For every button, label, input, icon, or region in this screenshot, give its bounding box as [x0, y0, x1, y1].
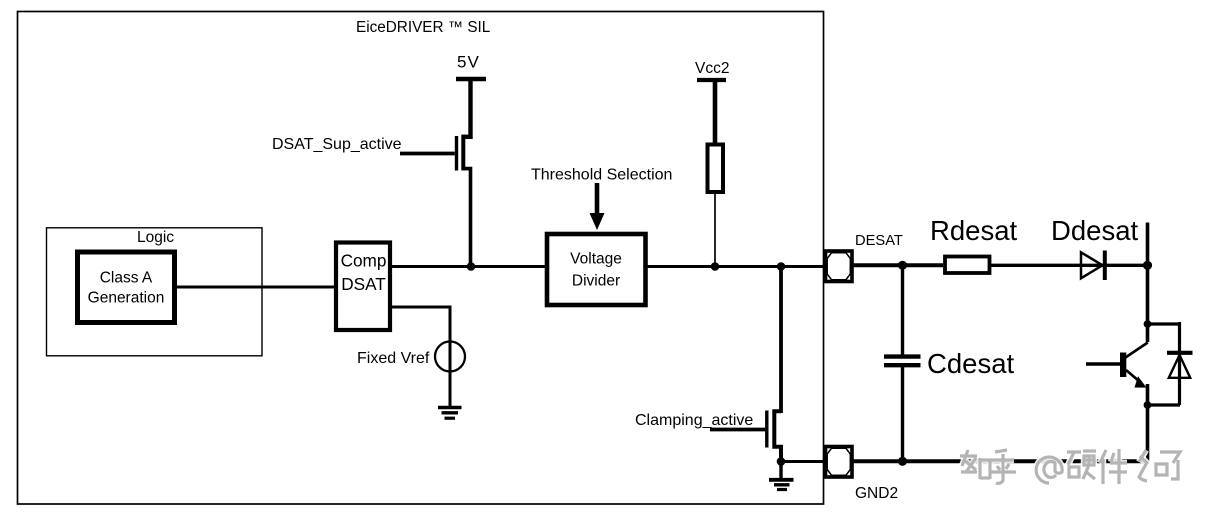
gate wire Clamping — [710, 428, 765, 432]
svg-text:Divider: Divider — [572, 273, 620, 290]
wire Class A to Comp DSAT — [177, 286, 334, 289]
supply bar Vcc2 — [697, 78, 726, 82]
junction node Cdesat top — [898, 261, 907, 270]
wire Comp DSAT ref output — [392, 307, 450, 406]
svg-text:Cdesat: Cdesat — [927, 348, 1014, 379]
wire clamp source to GND2 pad — [781, 460, 825, 463]
transistor Q IGBT — [1120, 343, 1148, 462]
junction node Vcc2 divider — [711, 262, 720, 271]
wire clamp drain vertical — [779, 267, 783, 414]
transistor DSAT_Sup (pmos) — [457, 135, 471, 267]
svg-text:EiceDRIVER ™ SIL: EiceDRIVER ™ SIL — [356, 19, 490, 36]
gate wire IGBT — [1086, 362, 1120, 365]
junction node diode bottom — [1144, 401, 1152, 409]
pad GND2 — [826, 447, 853, 478]
junction node diode top — [1144, 320, 1152, 328]
ground clamp — [769, 462, 794, 490]
junction node Ddesat cathode — [1143, 261, 1152, 270]
wire collector down — [1146, 265, 1150, 342]
wire Rdesat to IGBT collector node — [990, 264, 1148, 267]
svg-text:Comp: Comp — [341, 251, 387, 271]
svg-text:Ddesat: Ddesat — [1051, 215, 1138, 246]
capacitor Cdesat — [884, 357, 921, 366]
comparator block Comp DSAT — [336, 243, 390, 331]
outer box EiceDRIVER SIL — [18, 12, 824, 505]
wire Vcc2 to resistor — [713, 80, 718, 144]
wire to freewheel diode bottom — [1148, 403, 1181, 406]
voltage source Fixed Vref — [435, 342, 465, 372]
wire resistor to node — [714, 193, 716, 267]
Voltage Divider block — [547, 234, 646, 305]
wire 5V to transistor drain — [463, 79, 470, 137]
junction node DSAT_Sup source / comparator output — [467, 262, 476, 271]
ground Fixed Vref — [438, 408, 462, 419]
wire Comp DSAT output to Voltage Divider — [392, 265, 546, 268]
supply bar 5V — [456, 77, 486, 82]
svg-text:Vcc2: Vcc2 — [695, 60, 729, 77]
diode Ddesat — [1081, 251, 1105, 281]
svg-text:DSAT: DSAT — [341, 274, 386, 294]
wire DESAT pad to Rdesat — [854, 263, 944, 267]
svg-text:Generation: Generation — [88, 290, 165, 307]
watermark zhihu — [960, 449, 1180, 484]
wire collector stub up — [1146, 223, 1150, 266]
junction node Cdesat bottom — [898, 457, 907, 466]
wire Cdesat top — [901, 265, 904, 354]
Class A Generation block — [78, 252, 175, 323]
wire Cdesat bottom — [901, 367, 904, 461]
gate wire DSAT_Sup — [400, 152, 455, 156]
svg-text:GND2: GND2 — [855, 485, 898, 502]
svg-text:Class A: Class A — [100, 270, 153, 287]
transistor Clamping (nmos) — [767, 411, 781, 462]
svg-text:Voltage: Voltage — [570, 251, 622, 268]
svg-text:Logic: Logic — [137, 229, 174, 246]
bottom rail GND2 to emitter — [854, 459, 1148, 463]
resistor Rdesat — [945, 257, 990, 274]
arrow Threshold Selection — [590, 183, 605, 230]
Logic box — [47, 228, 263, 356]
svg-text:5V: 5V — [457, 53, 480, 72]
wire to freewheel diode top — [1148, 322, 1181, 325]
svg-text:DESAT: DESAT — [855, 233, 903, 249]
diode freewheel — [1167, 322, 1193, 405]
svg-text:Rdesat: Rdesat — [930, 215, 1017, 246]
wire Voltage Divider output to DESAT pad — [647, 265, 825, 268]
svg-text:Fixed Vref: Fixed Vref — [357, 350, 430, 367]
svg-text:DSAT_Sup_active: DSAT_Sup_active — [272, 136, 402, 153]
svg-text:Threshold Selection: Threshold Selection — [531, 167, 672, 184]
pad DESAT — [826, 251, 853, 282]
svg-text:Clamping_active: Clamping_active — [635, 412, 753, 429]
resistor R vcc2 — [708, 145, 724, 193]
junction node clamp tap — [777, 262, 786, 271]
junction node clamp source GND2 — [777, 457, 786, 466]
